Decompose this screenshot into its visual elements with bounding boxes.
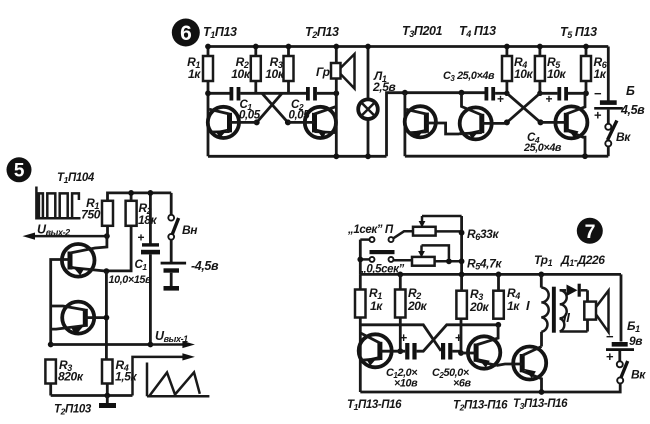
wire: R2 bottom to T1 base node <box>399 318 402 352</box>
svg-text:4,5в: 4,5в <box>620 103 645 117</box>
svg-text:+: + <box>138 231 145 245</box>
svg-text:Гр: Гр <box>316 65 330 79</box>
node: T1 base <box>254 119 260 125</box>
svg-text:×10в: ×10в <box>394 378 418 390</box>
wire: mid rail y=92.7 to C3 <box>405 91 485 94</box>
svg-text:Т3П13-П16: Т3П13-П16 <box>513 398 568 411</box>
wire: horizontal at emitter rail to C1 bottom <box>51 343 151 346</box>
transistor T1 (P104) <box>51 236 107 344</box>
resistor R1 <box>187 55 213 81</box>
wire: R6 leads <box>585 47 588 94</box>
wire: R2 leads <box>254 47 257 94</box>
node: T2 base <box>285 119 291 125</box>
wire: bottom-left rail <box>208 155 387 158</box>
resistor R2 <box>231 55 261 81</box>
resistor R3 <box>45 358 83 384</box>
transistor T2 <box>461 325 500 369</box>
svg-text:R633к: R633к <box>467 227 499 242</box>
svg-text:1к: 1к <box>594 67 607 81</box>
svg-text:Т2П13-П16: Т2П13-П16 <box>453 400 508 413</box>
svg-text:×6в: ×6в <box>453 378 472 390</box>
svg-text:Т4 П13: Т4 П13 <box>459 24 496 39</box>
svg-text:1к: 1к <box>188 67 201 81</box>
capacitor C4 <box>523 87 568 154</box>
svg-text:Т3П201: Т3П201 <box>402 24 443 39</box>
svg-text:+: + <box>400 331 407 345</box>
wire: R3 leads <box>287 47 290 94</box>
potentiometer R5 <box>412 245 502 271</box>
wire: R4 leads <box>505 47 508 94</box>
switch actuator bar <box>370 250 395 254</box>
resistor R4 <box>102 358 137 384</box>
svg-text:II: II <box>563 310 570 325</box>
svg-text:Б: Б <box>626 84 635 98</box>
capacitor C1 (2,0x10v) <box>386 331 418 390</box>
svg-text:С3 25,0×4в: С3 25,0×4в <box>443 70 495 83</box>
svg-text:+: + <box>606 349 614 364</box>
wire: top rail of circuit 5 <box>108 193 172 201</box>
wire: emitter node down to T2 base and R4 <box>105 271 108 359</box>
transistor T1 <box>359 333 401 367</box>
svg-text:10к: 10к <box>265 67 285 81</box>
svg-text:18к: 18к <box>138 213 158 227</box>
node: T5 base <box>538 119 544 125</box>
svg-text:10к: 10к <box>547 67 567 81</box>
svg-text:1,5к: 1,5к <box>115 370 137 384</box>
wire: R3 bottom to rail <box>49 384 52 396</box>
circled number 5 <box>7 157 32 182</box>
wire: C1 right diagonal up to T2 collector link <box>417 325 499 351</box>
battery B1 9v <box>606 319 642 364</box>
battery -4.5v <box>161 240 219 291</box>
battery B 4.5v <box>594 47 645 125</box>
wire: T3 column vertical <box>403 93 406 157</box>
speaker Gr <box>316 47 355 157</box>
svg-text:5: 5 <box>14 161 25 182</box>
svg-text:820к: 820к <box>58 370 84 384</box>
svg-text:−: − <box>594 86 602 101</box>
wire: R5 leads <box>539 47 542 94</box>
wire: left vertical (T1 collector/emitter column) <box>207 47 210 157</box>
svg-text:1к: 1к <box>370 299 383 313</box>
transformer core <box>552 287 556 333</box>
transistor T2 (P103) <box>51 302 107 336</box>
potentiometer R6 <box>413 216 499 242</box>
wire: cross-coupling X of T1/T2 <box>257 93 288 122</box>
wire: link left bottom rail up to mid rail of right half <box>387 93 405 157</box>
wire: R3 bottom to T2 base node <box>460 319 463 353</box>
switch contact pair (1 sek) <box>360 231 413 242</box>
transistor T5 <box>541 93 588 156</box>
svg-text:Б1: Б1 <box>627 319 640 334</box>
resistor R5 <box>535 55 567 81</box>
wire: C2 right to speaker column <box>317 92 336 95</box>
diode D1 D226 <box>560 253 605 297</box>
wire: bottom rail of circuit 7 <box>360 383 620 392</box>
capacitor C1 (electrolytic) <box>109 193 161 345</box>
svg-text:10,0×15в: 10,0×15в <box>109 274 153 286</box>
svg-text:С1: С1 <box>135 259 148 272</box>
wire: Uvyh-1 lower output arrow from ground rail <box>133 353 195 395</box>
svg-text:750: 750 <box>81 208 101 222</box>
svg-text:+: + <box>594 108 602 123</box>
wire: R4 bottom to rail <box>106 384 109 396</box>
switch Vk (circuit 6) <box>605 121 631 157</box>
wire: right edge of circuit 7 <box>620 274 623 341</box>
wire: main rail of circuit 7 <box>360 273 621 276</box>
transistor T1 <box>208 107 257 138</box>
wire: switch common vertical <box>359 240 362 275</box>
transformer secondary II <box>560 290 588 331</box>
resistor R3 <box>456 274 489 318</box>
wire: R2 leads, bottom bends to emitter node <box>106 193 131 271</box>
svg-text:Т1П13-П16: Т1П13-П16 <box>347 399 402 412</box>
wire: C3 right to R4 node <box>495 92 507 95</box>
svg-text:„1сек” П: „1сек” П <box>347 224 394 236</box>
wire: C4 left wire <box>540 92 558 95</box>
svg-text:Д1-Д226: Д1-Д226 <box>560 253 605 268</box>
transistor T2 <box>288 107 336 139</box>
svg-text:Uвых-1: Uвых-1 <box>155 329 188 344</box>
circled number 6 <box>172 19 200 47</box>
capacitor C2 <box>289 87 317 122</box>
transistor T3 <box>497 347 547 393</box>
transistor T3 <box>405 106 459 138</box>
svg-text:Т1П104: Т1П104 <box>57 172 95 185</box>
capacitor C1 <box>230 87 261 122</box>
node: C1 bottom / Uvyh-1 <box>148 342 154 348</box>
wire: cross-coupling X of T4/T5 <box>507 93 541 122</box>
svg-text:7: 7 <box>585 221 595 243</box>
node: T2 base <box>104 315 110 321</box>
lamp L1 <box>358 47 395 157</box>
capacitor C2 (50,0x6v) <box>432 331 472 390</box>
resistor R2 <box>126 201 158 227</box>
waveform: rectangular pulses Uvyh-2 <box>36 187 80 219</box>
wire: top supply rail <box>208 45 608 48</box>
waveform: sawtooth Uvyh-1 <box>147 363 209 397</box>
wire: R6/R5 right common vertical <box>460 216 463 274</box>
wire: R1 bottom to collector node <box>106 226 109 236</box>
speaker (circuit 7) <box>584 291 608 333</box>
svg-text:I: I <box>526 298 530 313</box>
node: R1 top <box>205 44 211 50</box>
svg-text:Тр1: Тр1 <box>534 253 553 268</box>
wire: left mid horizontal to C1 <box>208 92 230 95</box>
wire: T1 collector column / left side down to bottom rail <box>359 318 362 393</box>
wire: Uvyh-2 output arrow <box>23 233 107 240</box>
resistor R3 <box>265 55 293 81</box>
wire: C2 horizontal <box>282 92 306 95</box>
svg-text:25,0×4в: 25,0×4в <box>523 142 562 154</box>
wire: T2 collector/R4 node <box>495 322 501 328</box>
wire: C1 right to R2 column corner <box>240 92 262 95</box>
svg-text:9в: 9в <box>629 334 642 348</box>
svg-text:Т2П103: Т2П103 <box>54 404 92 417</box>
switch Vk (circuit 7) <box>617 361 646 383</box>
wire: C4 right to R6 node <box>568 92 586 95</box>
svg-text:Т1П13: Т1П13 <box>203 25 237 40</box>
node: T4 base <box>504 119 510 125</box>
wire: cross-coupling top link T1 collector to X <box>360 325 441 351</box>
svg-text:10к: 10к <box>514 67 534 81</box>
svg-text:R54,7к: R54,7к <box>467 257 502 272</box>
wire: diode to speaker top <box>586 290 589 302</box>
ground <box>99 396 116 409</box>
svg-text:1к: 1к <box>507 299 520 313</box>
node: T1 emitter / R2 <box>104 268 110 274</box>
resistor R1 <box>81 196 113 226</box>
transformer Tr1 primary I <box>526 274 549 331</box>
svg-text:20к: 20к <box>407 299 428 313</box>
resistor R4 <box>493 274 520 318</box>
transistor T4 <box>459 93 507 140</box>
wire: Uvyh-1 upper output arrow <box>150 341 195 348</box>
svg-text:Вн: Вн <box>182 223 198 237</box>
svg-text:Вк: Вк <box>616 130 631 144</box>
svg-text:6: 6 <box>180 22 191 45</box>
capacitor C3 <box>443 70 504 106</box>
switch contact pair (0,5 sek) <box>360 257 412 262</box>
wire: secondary bottom to speaker bottom <box>586 320 589 332</box>
svg-text:10к: 10к <box>231 67 251 81</box>
resistor R6 <box>581 55 608 81</box>
svg-text:Т2П13: Т2П13 <box>305 25 339 40</box>
circled number 7 <box>577 218 603 244</box>
wire: bottom-right rail <box>405 155 608 158</box>
svg-text:Т5 П13: Т5 П13 <box>560 25 597 40</box>
resistor R2 <box>395 274 428 317</box>
svg-text:20к: 20к <box>469 300 490 314</box>
resistor R4 <box>502 55 534 81</box>
wire: T3 collector up to transformer <box>540 332 543 347</box>
switch Vn (circuit 5) <box>168 193 198 240</box>
node: R3 top / emitter rail <box>48 342 54 348</box>
svg-text:Вк: Вк <box>631 368 646 382</box>
resistor R1 <box>355 274 383 317</box>
svg-text:−: − <box>606 329 614 344</box>
svg-text:-4,5в: -4,5в <box>191 259 219 273</box>
wire: bottom rail of circuit 5 <box>51 394 133 397</box>
